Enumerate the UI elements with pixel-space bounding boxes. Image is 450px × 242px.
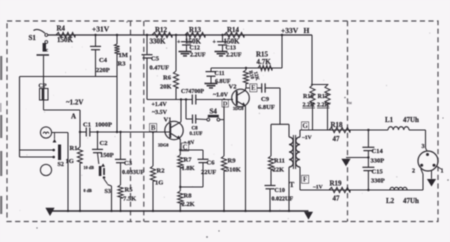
svg-text:+31V: +31V <box>92 25 110 34</box>
svg-text:R8: R8 <box>184 193 193 200</box>
svg-text:C5: C5 <box>151 56 160 63</box>
scan artifact smudges (left edge) <box>0 56 2 80</box>
svg-text:20K: 20K <box>160 84 172 91</box>
svg-text:47Uh: 47Uh <box>403 197 419 205</box>
wire V2 emitter to ground rail <box>245 106 247 211</box>
resistor R4 <box>56 32 75 37</box>
ground arrow left <box>45 208 54 216</box>
svg-text:+1.4V: +1.4V <box>152 102 168 108</box>
transformer T primary <box>288 124 290 137</box>
wire +31V supply rail <box>46 34 312 36</box>
wire circle1 to ground column <box>52 132 68 134</box>
svg-text:10 dB: 10 dB <box>84 165 95 170</box>
capacitor C11 <box>210 68 212 71</box>
svg-text:2.2UF: 2.2UF <box>190 53 206 59</box>
svg-text:~3.5V: ~3.5V <box>152 110 168 116</box>
resistor R11 <box>270 124 272 156</box>
capacitor C8 and switch S4 branch <box>185 100 187 120</box>
svg-text:E: E <box>251 85 256 92</box>
wire S4 up to node D <box>223 100 225 120</box>
svg-text:тм: тм <box>347 100 352 105</box>
section divider dashed line 3 <box>347 21 349 222</box>
resistor R12 <box>152 32 172 37</box>
capacitor C1 <box>85 128 87 137</box>
svg-text:C4: C4 <box>99 57 108 64</box>
svg-text:2.2K: 2.2K <box>317 103 330 109</box>
svg-text:4.7K: 4.7K <box>257 58 272 66</box>
svg-text:22UF: 22UF <box>201 169 216 176</box>
node D <box>222 100 228 107</box>
svg-text:T: T <box>290 181 295 189</box>
svg-text:3DG8: 3DG8 <box>233 106 243 111</box>
faint scan noise <box>149 53 150 54</box>
scan specks <box>206 236 208 238</box>
wire R15 row <box>211 67 282 69</box>
svg-text:R6: R6 <box>163 75 172 82</box>
wire A column down <box>79 110 81 147</box>
wire node G row <box>300 129 388 131</box>
svg-text:2.2K: 2.2K <box>303 103 316 109</box>
capacitor C10 <box>265 185 276 187</box>
svg-text:150P: 150P <box>100 152 114 159</box>
capacitor C12 <box>186 35 188 41</box>
svg-text:S3: S3 <box>105 189 111 195</box>
resistor R14 <box>224 32 244 37</box>
resistor R13 <box>185 32 205 37</box>
svg-text:C3: C3 <box>124 160 133 167</box>
resistor R19 <box>329 187 350 192</box>
svg-text:2.2UF: 2.2UF <box>226 53 242 59</box>
wire V1 emitter column <box>179 139 181 155</box>
svg-text:S1: S1 <box>29 34 37 42</box>
svg-text:22K: 22K <box>273 167 285 174</box>
svg-text:+33V: +33V <box>281 26 299 35</box>
svg-text:1.8K: 1.8K <box>182 165 195 172</box>
svg-text:C11: C11 <box>215 71 225 77</box>
battery E (c) <box>43 43 46 52</box>
resistor R2 <box>152 132 154 166</box>
svg-text:R7: R7 <box>184 157 193 164</box>
svg-text:C9: C9 <box>261 96 270 103</box>
wire node E row <box>246 87 262 89</box>
ground at C14/C15 midpoint <box>346 157 368 159</box>
wire V1 collector up <box>180 100 182 122</box>
node A wire <box>44 109 81 111</box>
resistor R15 <box>258 65 272 70</box>
capacitor C3 <box>120 132 122 159</box>
resistor R8 <box>178 191 183 204</box>
svg-text:3DG8: 3DG8 <box>158 143 168 148</box>
svg-text:C12: C12 <box>190 46 200 52</box>
svg-text:G: G <box>302 123 308 130</box>
svg-text:S4: S4 <box>210 108 218 116</box>
svg-text:R17: R17 <box>318 94 328 100</box>
capacitor C6 loop <box>180 149 203 151</box>
resistor R6 <box>175 35 177 71</box>
svg-text:R19: R19 <box>330 180 343 188</box>
mic element circle 1 <box>40 127 51 138</box>
svg-text:R4: R4 <box>57 25 66 33</box>
svg-text:R3: R3 <box>118 61 127 68</box>
capacitor C14 <box>367 130 369 147</box>
inductor L2 <box>390 187 407 190</box>
wire E down to transformer top <box>279 88 281 124</box>
svg-text:0.47UF: 0.47UF <box>150 65 170 72</box>
svg-text:R5: R5 <box>125 187 134 194</box>
svg-text:A: A <box>71 113 76 121</box>
svg-text:C8: C8 <box>192 127 199 132</box>
svg-text:C10: C10 <box>275 188 285 194</box>
svg-text:C14: C14 <box>372 148 384 155</box>
svg-text:47: 47 <box>333 195 341 203</box>
svg-text:C6: C6 <box>207 160 216 167</box>
svg-text:~1.2V: ~1.2V <box>66 99 83 107</box>
section divider dashed line 1 <box>130 21 132 222</box>
svg-text:V2: V2 <box>229 84 237 91</box>
switch S2 contacts wires <box>20 149 54 151</box>
svg-text:B: B <box>151 125 156 132</box>
resistor R10 <box>245 68 247 70</box>
svg-text:510K: 510K <box>226 167 241 174</box>
svg-text:R16: R16 <box>303 94 313 100</box>
svg-text:C13: C13 <box>226 46 236 52</box>
svg-text:~1V: ~1V <box>313 185 323 191</box>
svg-text:1: 1 <box>441 169 444 175</box>
mic element circle 2 <box>40 164 51 175</box>
svg-text:+: + <box>213 40 217 46</box>
mic capsule box edges <box>20 76 118 78</box>
svg-text:0.022UF: 0.022UF <box>272 197 294 203</box>
svg-text:C74700P: C74700P <box>181 89 204 95</box>
node C <box>182 143 189 151</box>
svg-text:47: 47 <box>333 135 341 143</box>
capacitor C15 <box>362 166 374 168</box>
svg-text:1G: 1G <box>155 180 163 187</box>
transistor V2 <box>232 89 250 107</box>
svg-text:R12: R12 <box>155 26 168 34</box>
svg-text:R14: R14 <box>227 26 240 34</box>
svg-text:R1: R1 <box>70 145 78 152</box>
svg-text:1G: 1G <box>66 158 74 165</box>
wire node F row <box>300 189 423 191</box>
svg-text:330P: 330P <box>371 158 385 165</box>
svg-text:1M: 1M <box>119 52 128 59</box>
capacitor C13 <box>222 35 224 41</box>
svg-text:47Uh: 47Uh <box>403 116 419 124</box>
wire node H column <box>311 35 313 85</box>
node B <box>150 124 157 132</box>
resistor R3 <box>116 35 118 44</box>
wire battery to capsule CP <box>43 56 45 88</box>
svg-text:7.5K: 7.5K <box>123 196 136 203</box>
resistor R18 <box>329 127 350 132</box>
ground under C11 <box>205 83 218 85</box>
capacitor C7 <box>191 95 193 105</box>
capacitor C4 <box>95 35 97 46</box>
capacitor C5 <box>146 35 148 54</box>
svg-text:2.2K: 2.2K <box>182 201 195 208</box>
ground rail <box>50 210 309 212</box>
ground under C12 <box>179 51 192 53</box>
transformer T core <box>292 135 294 169</box>
wire V1 collector line / C7 line <box>147 99 192 101</box>
switch S3 <box>104 179 108 184</box>
pin 1 lead <box>437 167 442 170</box>
switch S2 arm arrow <box>53 139 57 143</box>
svg-text:+: + <box>177 40 181 46</box>
svg-text:V1: V1 <box>164 117 172 124</box>
inductor L1 <box>388 127 409 130</box>
resistor R7 <box>178 155 183 168</box>
wire node B line to V1 base <box>90 131 170 133</box>
outer dashed border of schematic <box>7 21 438 222</box>
resistor R16 <box>310 85 315 104</box>
section divider dashed line 2 <box>143 21 145 222</box>
svg-text:3: 3 <box>422 144 425 150</box>
svg-text:R18: R18 <box>331 121 344 129</box>
DIN output connector <box>418 151 438 171</box>
transistor V1 <box>165 121 183 139</box>
transformer T secondary <box>296 137 300 167</box>
svg-text:S2: S2 <box>58 162 64 168</box>
resistor R1 <box>77 147 82 163</box>
svg-text:0 dB: 0 dB <box>84 188 92 193</box>
ground arrow right <box>304 212 313 220</box>
svg-text:150K: 150K <box>57 36 74 44</box>
svg-text:6.8UF: 6.8UF <box>258 104 275 111</box>
switch S2 bar <box>58 145 61 161</box>
wire R15 to rail <box>281 35 283 68</box>
svg-text:1000P: 1000P <box>95 122 112 129</box>
svg-text:C15: C15 <box>372 169 384 176</box>
svg-text:330K: 330K <box>150 38 167 46</box>
svg-text:R13: R13 <box>189 26 202 34</box>
ground under C13 <box>215 51 228 53</box>
svg-text:H: H <box>304 26 310 35</box>
capacitor C2 <box>97 132 99 149</box>
svg-text:R11: R11 <box>274 158 285 165</box>
switch S1 <box>34 29 46 33</box>
switch S4 <box>207 118 210 121</box>
svg-text:F: F <box>303 177 307 184</box>
svg-text:R9: R9 <box>228 158 237 165</box>
resistor R17 <box>325 85 330 104</box>
svg-text:L2: L2 <box>386 197 395 205</box>
svg-text:R2: R2 <box>157 168 165 175</box>
svg-text:~1.0V: ~1.0V <box>213 93 229 99</box>
svg-text:0.1UF: 0.1UF <box>190 132 203 137</box>
wire A to C1 <box>80 131 86 133</box>
svg-text:330P: 330P <box>371 178 385 185</box>
svg-text:0.033UF: 0.033UF <box>122 169 144 176</box>
svg-text:2: 2 <box>412 169 415 175</box>
capacitor C9 <box>261 83 263 92</box>
svg-text:L1: L1 <box>385 116 394 124</box>
svg-text:C2: C2 <box>100 140 108 147</box>
resistor R5 <box>118 185 123 198</box>
svg-text:220P: 220P <box>96 67 110 74</box>
ground under connector <box>431 171 433 179</box>
resistor R9 <box>223 106 225 156</box>
svg-text:~1V: ~1V <box>302 135 312 141</box>
svg-text:C1: C1 <box>83 122 91 129</box>
